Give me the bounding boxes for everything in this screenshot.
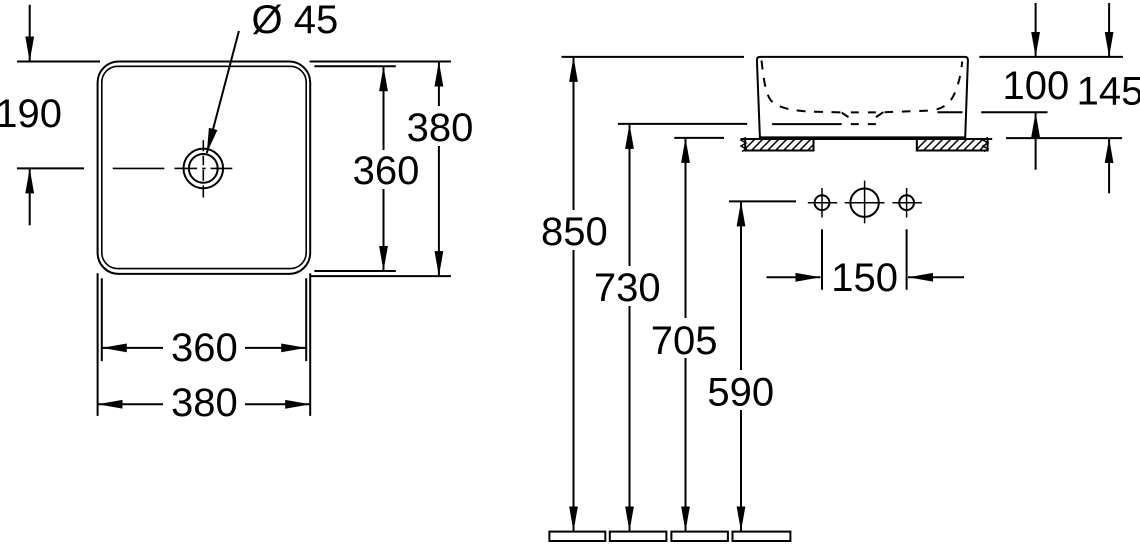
svg-text:145: 145 — [1077, 70, 1140, 114]
floor line box 1 — [549, 532, 605, 541]
bottom extension line inner left — [101, 278, 103, 361]
top view basin outer rim — [98, 62, 311, 274]
leader line for diameter 45 — [207, 31, 239, 153]
extension line 850 at rim top — [562, 56, 745, 58]
dimension 145 lower arrow — [1108, 138, 1110, 193]
dimension 590 line lower segment — [740, 410, 742, 531]
svg-text:150: 150 — [831, 256, 898, 300]
dimension 705 line upper segment — [685, 138, 687, 318]
dimension 150 left arrow — [767, 276, 821, 278]
svg-text:Ø 45: Ø 45 — [252, 0, 339, 42]
faucet hole center large circle — [845, 181, 885, 224]
bottom extension line outer left — [97, 273, 99, 416]
dimension 360 horizontal left segment — [102, 347, 163, 349]
right side extension line 380 top — [310, 61, 451, 63]
side view bowl hidden dashed curve right — [885, 62, 963, 113]
extension line below right faucet hole — [906, 229, 908, 289]
floor line box 3 — [671, 532, 728, 541]
side view bowl notch right diagonal — [876, 112, 883, 117]
side view bowl flat bottom solid line — [772, 123, 842, 125]
right side extension line 360 top — [314, 65, 395, 67]
svg-text:360: 360 — [171, 326, 238, 370]
extension line below left faucet hole — [821, 229, 823, 289]
svg-text:590: 590 — [707, 371, 774, 415]
svg-text:850: 850 — [541, 210, 608, 254]
dimension 360 vertical line lower segment — [383, 189, 385, 271]
dimension 590 line upper segment — [740, 201, 742, 370]
side view bowl flat bottom hidden dashes — [851, 123, 876, 125]
dimension 190 lower arrow — [29, 168, 31, 225]
dimension 190 upper arrow — [29, 5, 31, 62]
dimension 730 line lower segment — [629, 306, 631, 531]
dimension 100 upper arrow — [1035, 3, 1037, 57]
dimension 850 line lower segment — [573, 250, 575, 531]
floor line box 2 — [610, 532, 667, 541]
mounting pad left hatched box — [741, 137, 821, 153]
dimension 190 extension line bottom — [17, 167, 84, 169]
extension line 705 at mounting surface — [674, 137, 724, 139]
faucet hole left small circle — [808, 188, 838, 218]
dimension 380 horizontal left segment — [98, 403, 163, 405]
dimension 100 lower arrow — [1035, 112, 1037, 169]
extension line 730 at bowl bottom — [618, 123, 747, 125]
dimension 730 line upper segment — [629, 124, 631, 266]
mounting surface line — [741, 138, 993, 140]
extension line 145 bottom (mounting level right) — [1006, 137, 1122, 139]
dimension 150 right arrow — [908, 276, 964, 278]
side view basin outline — [757, 57, 968, 137]
top view basin inner rim — [102, 66, 306, 268]
drain hole outer circle — [184, 149, 224, 189]
svg-text:190: 190 — [0, 92, 62, 136]
svg-text:380: 380 — [407, 106, 474, 150]
dimension 380 vertical line upper segment — [438, 62, 440, 107]
mounting pad right break squiggle — [983, 138, 988, 152]
bottom extension line inner right — [305, 278, 307, 361]
drain hole horizontal centerline — [113, 167, 233, 169]
side view bowl dashes center — [851, 111, 876, 113]
extension line 590 at faucet holes — [729, 200, 796, 202]
bottom extension line outer right — [309, 273, 311, 416]
side view bowl notch left diagonal — [842, 113, 849, 118]
faucet hole right small circle — [892, 188, 922, 218]
dimension 850 line upper segment — [573, 57, 575, 210]
dimension 145 upper arrow — [1108, 3, 1110, 57]
svg-text:360: 360 — [353, 149, 420, 193]
mounting pad right hatched box — [913, 137, 993, 153]
dimension 190 extension line top — [17, 61, 100, 63]
mounting pad left break squiggle — [741, 138, 746, 152]
dimension 360 horizontal right segment — [245, 347, 306, 349]
extension line 100 bottom — [981, 111, 1047, 113]
extension line top right for 100 and 145 — [979, 56, 1123, 58]
side view rear rim solid segment — [938, 111, 963, 113]
dimension 380 vertical line lower segment — [438, 146, 440, 276]
side view bowl hidden dashed curve left — [762, 61, 842, 113]
dimension 380 horizontal right segment — [245, 403, 310, 405]
svg-text:380: 380 — [171, 381, 238, 425]
right side extension line 360 bottom — [314, 270, 395, 272]
drain hole vertical centerline — [202, 140, 204, 197]
right side extension line 380 bottom — [310, 275, 451, 277]
svg-text:705: 705 — [651, 319, 718, 363]
floor line box 4 — [733, 532, 791, 541]
svg-text:100: 100 — [1003, 64, 1070, 108]
dimension 705 line lower segment — [685, 358, 687, 531]
drain hole inner circle — [189, 154, 218, 183]
svg-text:730: 730 — [594, 266, 661, 310]
dimension 360 vertical line upper segment — [383, 66, 385, 150]
